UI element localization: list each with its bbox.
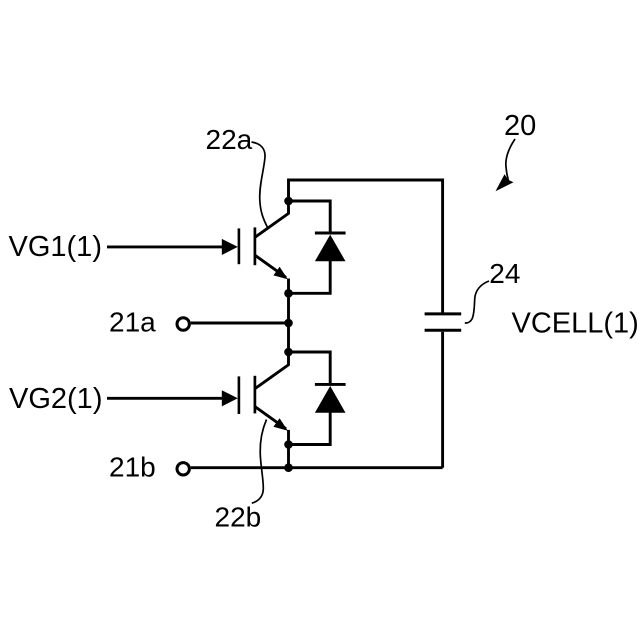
- arrowhead gate VG1: [222, 239, 238, 255]
- diode D1 cathode bar: [315, 232, 346, 235]
- svg-text:21a: 21a: [109, 306, 156, 337]
- wire gate input VG1: [107, 245, 223, 248]
- collector lead Q2: [255, 352, 289, 389]
- junction node Q2 emitter: [284, 440, 293, 449]
- collector lead Q1: [255, 201, 289, 237]
- junction node 21a: [284, 319, 293, 328]
- svg-text:VG1(1): VG1(1): [9, 231, 102, 263]
- terminal circle 21b: [177, 463, 189, 475]
- transistor 22b IGBT lower: [239, 352, 289, 429]
- arrowhead 20: [496, 174, 514, 191]
- leader arrow 20: [506, 139, 515, 181]
- gate bar right Q2: [254, 376, 257, 414]
- gate bar left Q2: [238, 376, 241, 414]
- wire gate input VG2: [107, 397, 223, 400]
- capacitor 24 top plate: [425, 312, 462, 315]
- leader 22a to Q1: [252, 142, 268, 227]
- junction node Q1 emitter: [284, 289, 293, 298]
- wire capacitor bottom to bottom rail: [441, 332, 444, 468]
- wire middle bus between Q1 emitter and Q2 collector: [287, 293, 290, 352]
- diode D1 branch top wire: [289, 201, 331, 232]
- svg-text:VCELL(1): VCELL(1): [512, 308, 639, 340]
- diode D2 cathode bar: [315, 383, 346, 386]
- junction node Q1 collector: [284, 197, 293, 206]
- emitter arrowhead Q1: [273, 267, 287, 280]
- arrowhead gate VG2: [222, 390, 238, 406]
- terminal circle 21a: [177, 318, 189, 330]
- leader 22b to Q2: [252, 420, 267, 504]
- svg-text:22b: 22b: [215, 502, 262, 533]
- wire top rail to capacitor: [289, 180, 443, 313]
- diode D1 triangle: [315, 235, 346, 262]
- wire emitter stub Q2: [287, 430, 290, 445]
- diode D2 anode wire: [289, 411, 331, 444]
- svg-text:21b: 21b: [109, 451, 156, 482]
- junction node Q2 collector: [284, 348, 293, 357]
- wire emitter stub Q1: [287, 279, 290, 294]
- wire bottom rail 21b: [191, 466, 443, 469]
- wire node 21a to bus: [191, 322, 289, 325]
- junction node 21b: [284, 463, 293, 472]
- diode D2 branch top wire: [289, 352, 331, 383]
- transistor 22a IGBT upper: [239, 201, 289, 277]
- svg-text:VG2(1): VG2(1): [9, 383, 102, 415]
- diode D1 anode wire: [289, 260, 331, 293]
- emitter lead Q1: [255, 255, 286, 277]
- emitter lead Q2: [255, 407, 286, 429]
- gate bar right Q1: [254, 227, 257, 265]
- gate bar left Q1: [238, 228, 241, 264]
- diode D2 triangle: [315, 386, 346, 413]
- leader 24 to capacitor: [465, 281, 489, 323]
- capacitor 24 bottom plate: [425, 329, 462, 332]
- svg-text:22a: 22a: [206, 124, 253, 155]
- wire bus Q2 emitter to bottom rail: [287, 445, 290, 468]
- svg-text:20: 20: [504, 110, 536, 142]
- svg-text:24: 24: [489, 258, 520, 289]
- emitter arrowhead Q2: [273, 418, 287, 431]
